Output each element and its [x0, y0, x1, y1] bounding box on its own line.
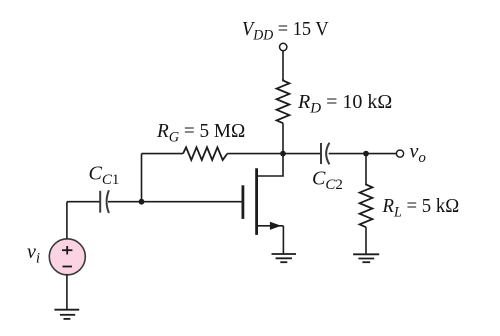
node drain junction: [280, 151, 286, 157]
ground at source: [272, 254, 297, 262]
resistor RD: [277, 79, 290, 123]
svg-text:RD = 10 kΩ: RD = 10 kΩ: [297, 91, 392, 117]
wire vi to CC1: [67, 201, 100, 203]
wire left segment of RG row: [142, 153, 184, 155]
resistor RG: [183, 147, 227, 160]
label vo: [410, 141, 427, 167]
svg-text:RL = 5 kΩ: RL = 5 kΩ: [382, 196, 460, 221]
label RL = 5 kOhm: [382, 196, 460, 221]
capacitor CC2: [321, 143, 329, 165]
wire RL to ground: [365, 227, 367, 254]
label CC2: [312, 168, 343, 194]
wire RG to drain node and CC2: [227, 153, 320, 155]
node gate junction: [139, 199, 145, 205]
ground at RL: [353, 254, 379, 262]
wire gate row to vi: [66, 202, 68, 239]
label vi: [27, 241, 40, 267]
svg-text:RG = 5 MΩ: RG = 5 MΩ: [156, 121, 245, 146]
drain lead: [257, 154, 283, 176]
wire vi to ground: [66, 274, 68, 309]
minus sign: [63, 266, 73, 268]
wire RG row down to gate node: [141, 154, 143, 202]
wire CC1 to gate: [108, 201, 242, 203]
wire RD to drain node: [282, 123, 284, 153]
wire node to RL: [365, 154, 367, 184]
capacitor CC1: [100, 190, 109, 213]
gate bar: [241, 185, 244, 219]
VDD terminal: [280, 43, 287, 50]
svg-text:CC2: CC2: [312, 168, 343, 194]
label RD = 10 kOhm: [297, 91, 392, 117]
source lead: [257, 225, 284, 227]
svg-text:CC1: CC1: [89, 163, 120, 189]
plus sign: [62, 246, 72, 267]
source arrow: [270, 222, 281, 230]
wire CC2 to vo: [329, 153, 397, 155]
wire source down: [282, 226, 284, 254]
node output junction: [363, 151, 369, 157]
transistor Q1 NMOS: [243, 168, 257, 235]
ground at vi: [54, 310, 79, 319]
source vi: [49, 239, 85, 275]
svg-text:vo: vo: [410, 141, 427, 167]
label VDD = 15 V: [242, 18, 329, 43]
svg-text:vi: vi: [27, 241, 40, 267]
label CC1: [89, 163, 120, 189]
terminal vo: [396, 150, 403, 157]
resistor RL: [360, 184, 373, 228]
svg-text:VDD = 15 V: VDD = 15 V: [242, 18, 329, 43]
label RG = 5 MOhm: [156, 121, 245, 146]
wire VDD to RD: [282, 51, 284, 80]
channel bar: [255, 168, 258, 235]
